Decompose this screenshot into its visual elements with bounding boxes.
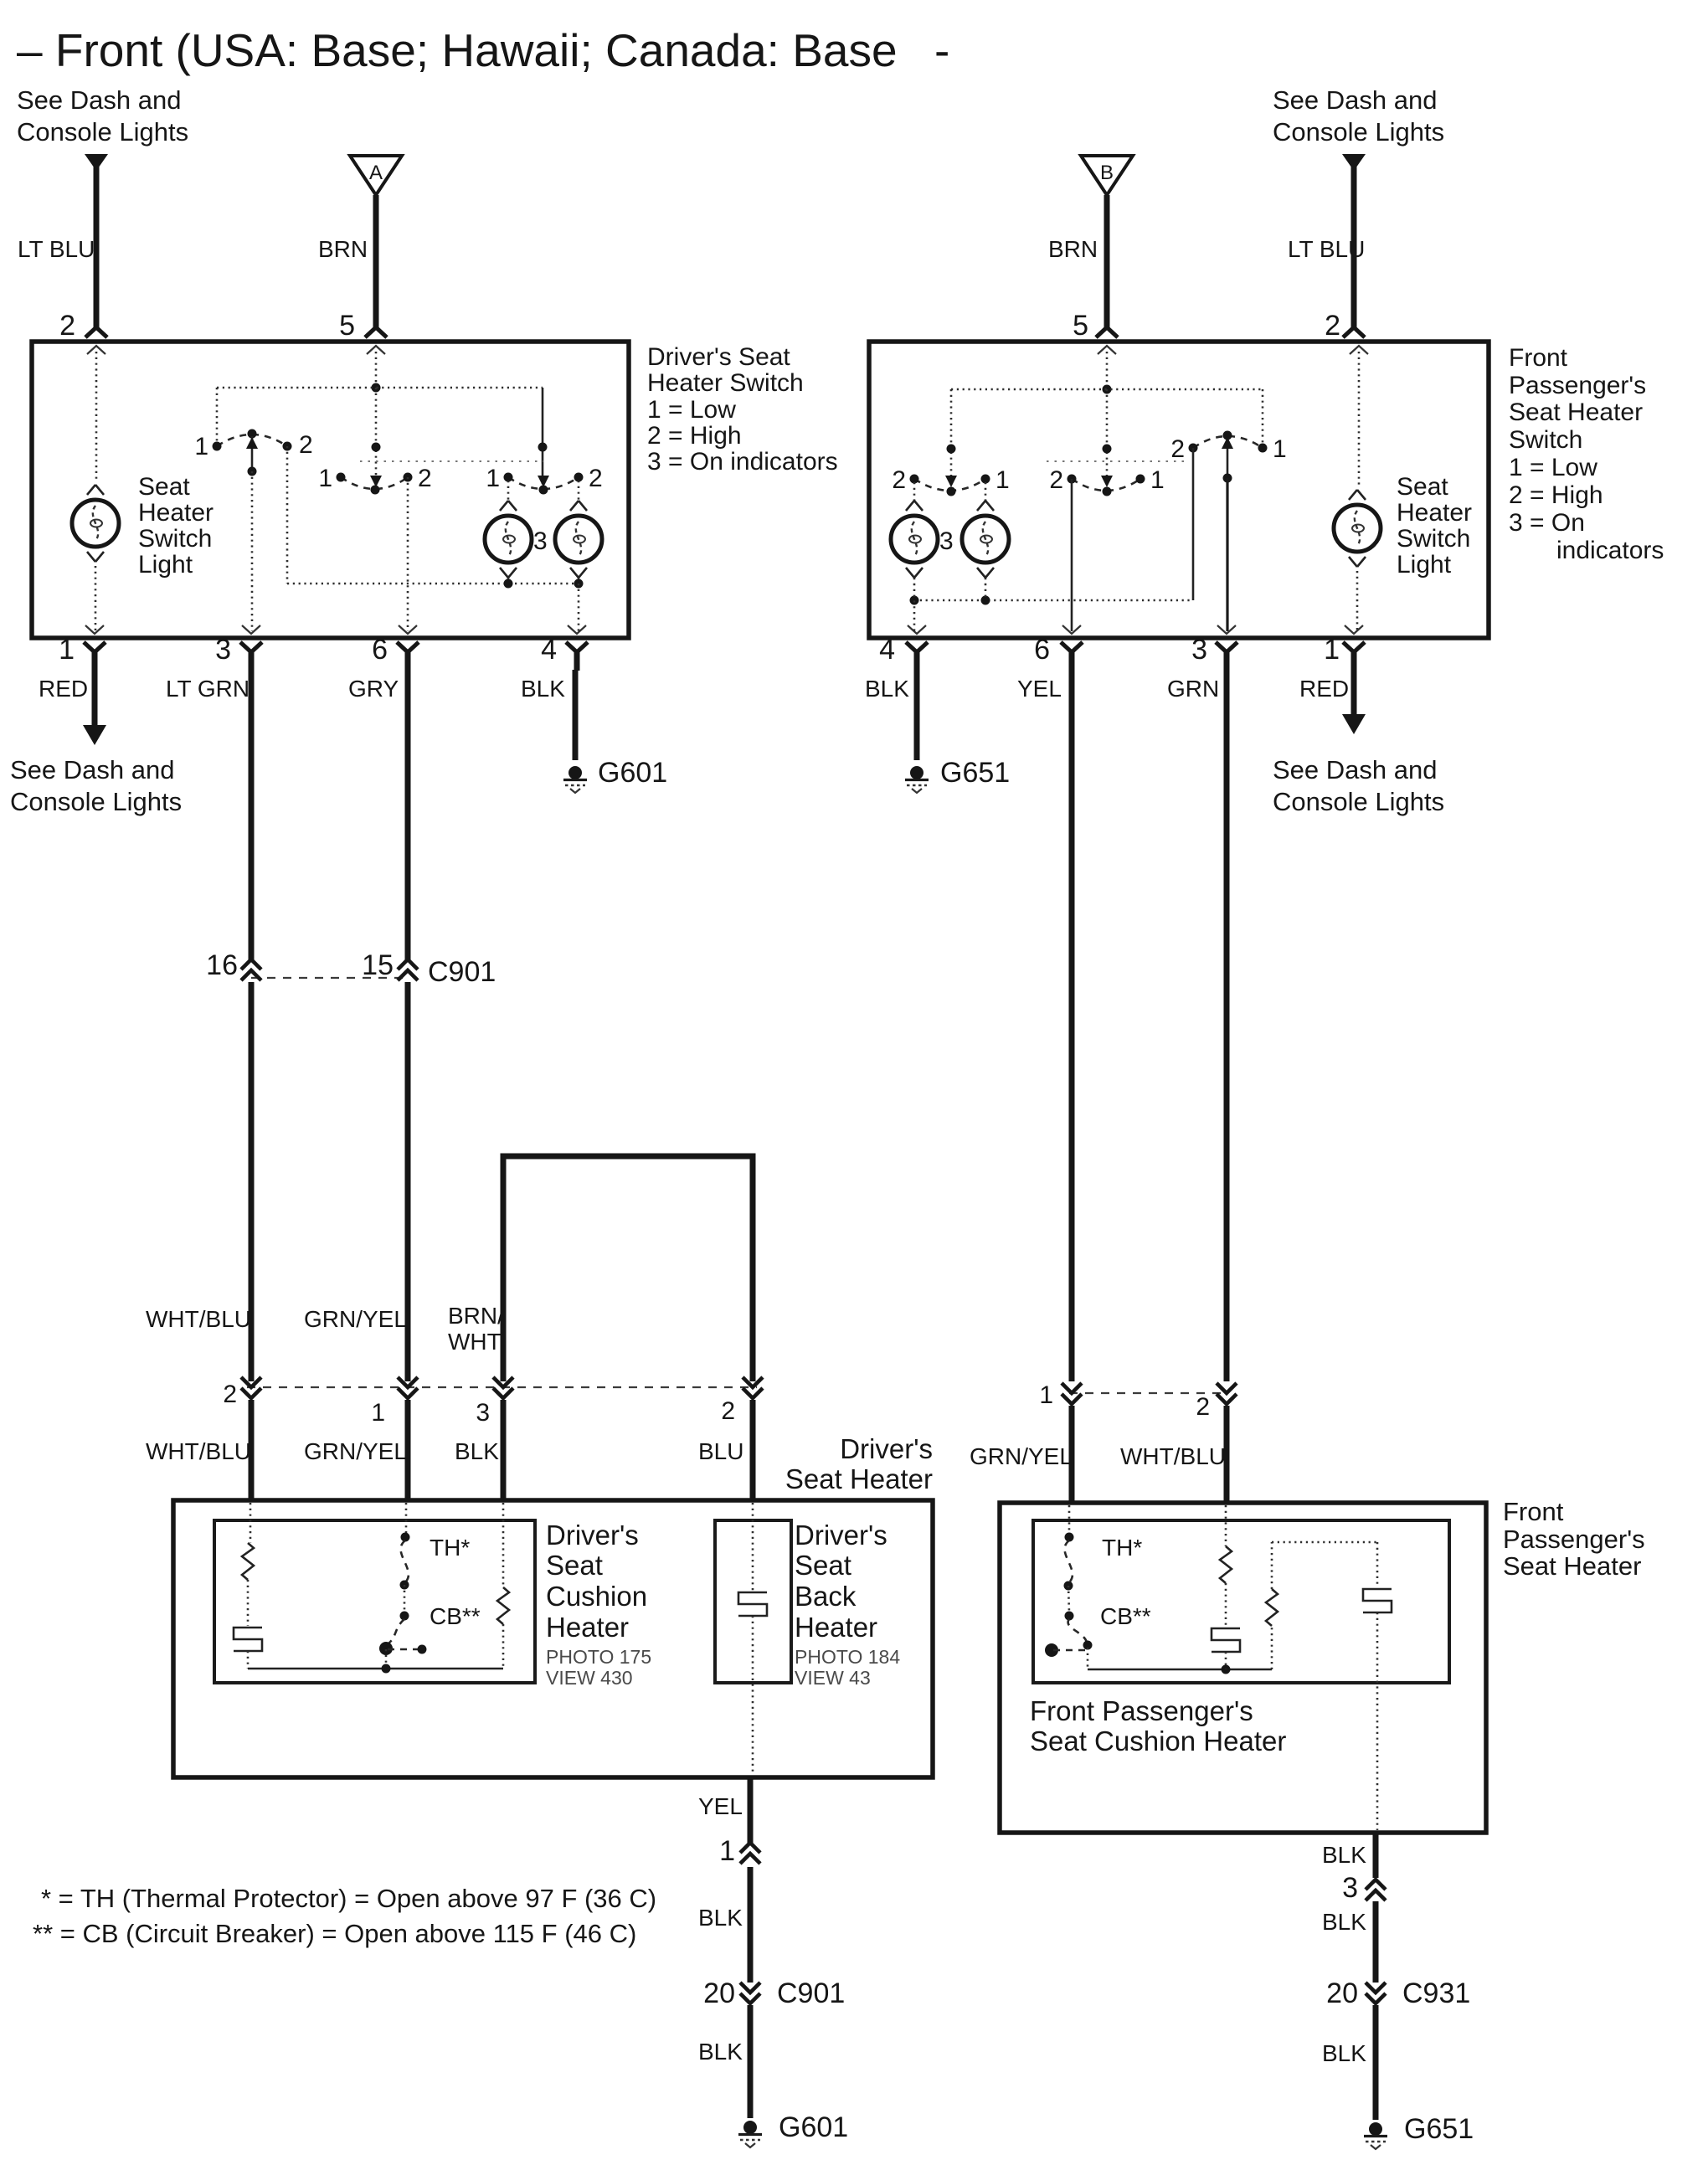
svg-text:Front: Front	[1509, 344, 1568, 372]
svg-text:Driver's: Driver's	[546, 1520, 639, 1551]
svg-text:Seat: Seat	[138, 473, 190, 501]
svg-text:Heater: Heater	[795, 1612, 877, 1643]
svg-text:BLK: BLK	[698, 1905, 743, 1931]
svg-text:20: 20	[1326, 1977, 1358, 2009]
svg-text:2: 2	[1049, 466, 1063, 494]
svg-text:BRN: BRN	[1048, 236, 1098, 262]
svg-text:G601: G601	[598, 757, 667, 789]
svg-text:C901: C901	[777, 1977, 845, 2009]
svg-text:LT BLU: LT BLU	[18, 236, 95, 262]
svg-text:2 = High: 2 = High	[647, 422, 742, 450]
svg-text:CB**: CB**	[430, 1603, 481, 1629]
svg-text:See Dash and: See Dash and	[1273, 85, 1437, 115]
svg-text:YEL: YEL	[1017, 676, 1062, 702]
svg-text:Seat Cushion Heater: Seat Cushion Heater	[1030, 1725, 1286, 1756]
svg-text:5: 5	[1073, 310, 1088, 342]
svg-text:Console Lights: Console Lights	[17, 117, 188, 147]
svg-text:Driver's: Driver's	[795, 1520, 887, 1551]
svg-text:– Front (USA: Base; Hawaii; Ca: – Front (USA: Base; Hawaii; Canada: Base	[17, 24, 898, 76]
svg-text:Back: Back	[795, 1581, 857, 1612]
svg-text:2: 2	[589, 465, 603, 492]
svg-text:Console Lights: Console Lights	[1273, 117, 1444, 147]
svg-text:GRY: GRY	[348, 676, 399, 702]
svg-text:Console Lights: Console Lights	[10, 787, 182, 816]
svg-text:1: 1	[1273, 435, 1287, 463]
svg-text:G601: G601	[779, 2111, 848, 2143]
svg-text:2: 2	[1170, 435, 1185, 463]
svg-text:Passenger's: Passenger's	[1509, 372, 1646, 399]
svg-text:G651: G651	[940, 757, 1010, 789]
svg-text:RED: RED	[1299, 676, 1349, 702]
svg-text:4: 4	[879, 634, 895, 666]
svg-text:Front Passenger's: Front Passenger's	[1030, 1695, 1253, 1726]
svg-text:BLK: BLK	[1322, 1909, 1366, 1935]
svg-text:PHOTO 175: PHOTO 175	[546, 1646, 651, 1668]
svg-text:BLK: BLK	[1322, 1842, 1366, 1868]
svg-text:BLK: BLK	[698, 2039, 743, 2065]
svg-text:1: 1	[995, 466, 1010, 494]
svg-text:Passenger's: Passenger's	[1503, 1525, 1645, 1554]
svg-text:* = TH (Thermal Protector) = O: * = TH (Thermal Protector) = Open above …	[41, 1884, 656, 1913]
svg-text:Light: Light	[138, 551, 193, 579]
svg-text:2: 2	[892, 466, 906, 494]
svg-text:Seat: Seat	[1397, 473, 1448, 501]
svg-text:3: 3	[1342, 1872, 1358, 1904]
svg-text:LT BLU: LT BLU	[1288, 236, 1365, 262]
svg-text:PHOTO 184: PHOTO 184	[795, 1646, 900, 1668]
svg-text:indicators: indicators	[1556, 537, 1664, 564]
svg-text:2: 2	[223, 1381, 237, 1408]
svg-text:BLK: BLK	[1322, 2040, 1366, 2066]
svg-text:16: 16	[206, 949, 238, 981]
svg-text:1 = Low: 1 = Low	[1509, 454, 1597, 481]
svg-text:A: A	[369, 162, 383, 184]
svg-text:3: 3	[476, 1399, 490, 1427]
svg-text:G651: G651	[1404, 2113, 1474, 2145]
svg-text:TH*: TH*	[430, 1535, 470, 1561]
svg-text:BLU: BLU	[698, 1438, 743, 1464]
svg-text:Seat Heater: Seat Heater	[1503, 1551, 1641, 1581]
svg-text:Driver's Seat: Driver's Seat	[647, 343, 790, 371]
svg-text:See Dash and: See Dash and	[10, 755, 174, 784]
svg-text:Driver's: Driver's	[840, 1433, 933, 1464]
svg-text:BLK: BLK	[865, 676, 909, 702]
svg-text:BLK: BLK	[521, 676, 565, 702]
svg-text:C901: C901	[428, 956, 496, 988]
svg-text:GRN/YEL: GRN/YEL	[970, 1443, 1073, 1469]
svg-text:VIEW 43: VIEW 43	[795, 1667, 871, 1689]
svg-text:1: 1	[318, 465, 332, 492]
svg-text:Seat Heater: Seat Heater	[1509, 399, 1643, 426]
svg-text:1: 1	[719, 1835, 735, 1867]
svg-text:Switch: Switch	[1509, 426, 1582, 454]
svg-text:See Dash and: See Dash and	[17, 85, 181, 115]
svg-text:Light: Light	[1397, 551, 1452, 579]
svg-text:Heater Switch: Heater Switch	[647, 369, 804, 397]
svg-text:2: 2	[418, 465, 432, 492]
svg-text:1: 1	[1150, 466, 1165, 494]
svg-text:2: 2	[299, 431, 313, 459]
svg-text:1 = Low: 1 = Low	[647, 396, 736, 424]
svg-text:WHT: WHT	[448, 1329, 502, 1355]
svg-text:2: 2	[59, 310, 75, 342]
svg-text:YEL: YEL	[698, 1793, 743, 1819]
svg-text:** = CB (Circuit Breaker) = Op: ** = CB (Circuit Breaker) = Open above 1…	[33, 1919, 636, 1948]
svg-text:-: -	[934, 24, 949, 76]
svg-text:BLK: BLK	[455, 1438, 499, 1464]
svg-text:TH*: TH*	[1102, 1535, 1142, 1561]
svg-text:Console Lights: Console Lights	[1273, 787, 1444, 816]
svg-text:Cushion: Cushion	[546, 1581, 647, 1612]
svg-text:3: 3	[1191, 634, 1207, 666]
svg-text:1: 1	[59, 634, 75, 666]
svg-text:See Dash and: See Dash and	[1273, 755, 1437, 784]
svg-text:Switch: Switch	[138, 525, 212, 553]
svg-text:3: 3	[939, 527, 954, 555]
svg-text:1: 1	[486, 465, 500, 492]
svg-text:Heater: Heater	[1397, 499, 1472, 527]
svg-text:1: 1	[194, 433, 208, 460]
svg-text:3 = On: 3 = On	[1509, 509, 1585, 537]
svg-text:WHT/BLU: WHT/BLU	[1120, 1443, 1226, 1469]
svg-text:2: 2	[1325, 310, 1340, 342]
svg-text:Seat: Seat	[795, 1550, 851, 1581]
svg-text:Seat Heater: Seat Heater	[785, 1463, 933, 1494]
svg-text:B: B	[1100, 162, 1114, 184]
svg-text:5: 5	[339, 310, 355, 342]
svg-text:GRN/YEL: GRN/YEL	[304, 1306, 407, 1332]
svg-text:2: 2	[721, 1397, 735, 1425]
svg-text:VIEW 430: VIEW 430	[546, 1667, 633, 1689]
svg-text:1: 1	[1039, 1381, 1053, 1409]
svg-text:Heater: Heater	[138, 499, 213, 527]
svg-text:2: 2	[1196, 1393, 1210, 1421]
svg-text:3 = On indicators: 3 = On indicators	[647, 448, 838, 476]
svg-text:WHT/BLU: WHT/BLU	[146, 1438, 251, 1464]
svg-text:Switch: Switch	[1397, 525, 1470, 553]
svg-text:1: 1	[1324, 634, 1340, 666]
svg-text:BRN/: BRN/	[448, 1303, 504, 1329]
svg-text:Front: Front	[1503, 1497, 1564, 1526]
svg-text:C931: C931	[1402, 1977, 1470, 2009]
svg-text:WHT/BLU: WHT/BLU	[146, 1306, 251, 1332]
svg-text:6: 6	[372, 634, 388, 666]
svg-text:6: 6	[1034, 634, 1050, 666]
svg-text:LT GRN: LT GRN	[166, 676, 250, 702]
svg-text:RED: RED	[39, 676, 88, 702]
svg-text:Seat: Seat	[546, 1550, 603, 1581]
svg-text:CB**: CB**	[1100, 1603, 1151, 1629]
svg-text:20: 20	[703, 1977, 735, 2009]
svg-text:4: 4	[541, 634, 557, 666]
svg-text:Heater: Heater	[546, 1612, 629, 1643]
svg-text:BRN: BRN	[318, 236, 368, 262]
svg-text:15: 15	[362, 949, 394, 981]
svg-text:GRN/YEL: GRN/YEL	[304, 1438, 407, 1464]
svg-text:GRN: GRN	[1167, 676, 1219, 702]
svg-text:1: 1	[371, 1399, 385, 1427]
svg-text:3: 3	[533, 527, 548, 555]
svg-text:2 = High: 2 = High	[1509, 481, 1603, 509]
svg-text:3: 3	[215, 634, 231, 666]
